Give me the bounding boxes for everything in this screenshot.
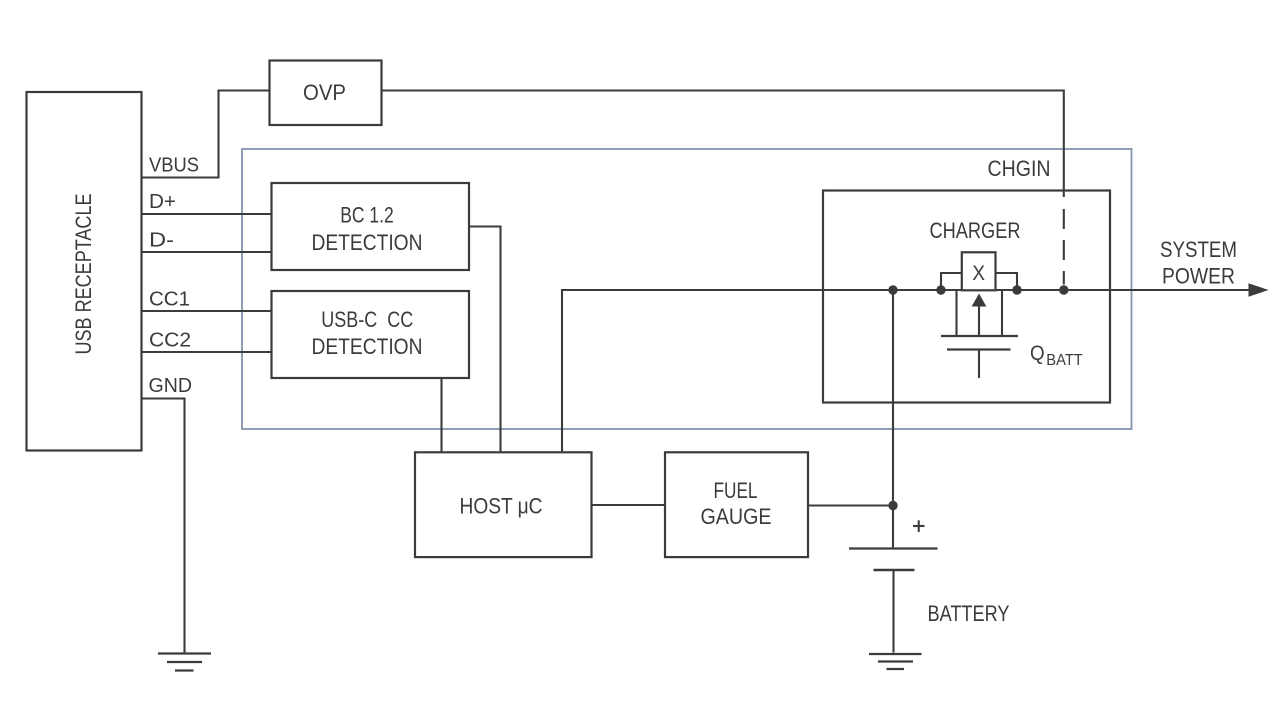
wire CC-detection to host <box>440 378 442 452</box>
block HOST microcontroller <box>415 452 592 557</box>
svg-text:USB-C CC: USB-C CC <box>321 307 413 332</box>
block USB receptacle J1 <box>27 92 142 451</box>
wire battery to ground <box>892 570 894 653</box>
wire charger to battery <box>892 290 894 548</box>
svg-text:HOST μC: HOST μC <box>460 494 543 519</box>
ground symbol (battery) <box>869 654 922 669</box>
svg-text:DETECTION: DETECTION <box>312 230 423 255</box>
block OVP <box>270 61 382 126</box>
svg-text:GND: GND <box>149 375 193 397</box>
node dot CHGIN <box>1059 285 1068 294</box>
node dot transistor right <box>1012 285 1021 294</box>
wire fuel gauge to battery node <box>808 504 893 506</box>
svg-text:OVP: OVP <box>303 80 346 105</box>
svg-text:BATTERY: BATTERY <box>928 601 1010 626</box>
svg-text:CHARGER: CHARGER <box>930 218 1021 243</box>
transistor Q1 drain lead <box>1001 291 1003 335</box>
dashed-boundary IC block (blue) <box>242 149 1132 429</box>
svg-text:VBUS: VBUS <box>149 155 199 177</box>
wire system power rail <box>562 290 1251 452</box>
transistor QBATT right jog <box>996 273 1018 290</box>
node dot transistor left <box>936 285 945 294</box>
svg-text:CC2: CC2 <box>149 330 191 352</box>
arrowhead system power <box>1249 283 1269 297</box>
wire CHGIN dashed segment <box>1063 209 1065 285</box>
transistor Q1 source lead <box>955 291 957 335</box>
transistor Q1 gate lead <box>978 350 980 378</box>
wire D+ <box>142 213 272 215</box>
transistor Q1 gate plate <box>947 348 1011 350</box>
svg-text:D+: D+ <box>149 191 176 213</box>
block BC 1.2 detection <box>272 183 470 270</box>
node dot battery rail <box>888 285 897 294</box>
block FUEL GAUGE <box>665 452 808 557</box>
svg-text:FUEL: FUEL <box>714 478 758 503</box>
wire CC1 <box>142 310 272 312</box>
svg-text:Q: Q <box>1030 342 1045 365</box>
wire BC1.2 to host <box>469 227 501 453</box>
svg-text:SYSTEM: SYSTEM <box>1160 237 1237 262</box>
svg-text:USB RECEPTACLE: USB RECEPTACLE <box>71 194 96 355</box>
battery plus sign <box>913 520 925 532</box>
wire GND to ground <box>142 399 185 653</box>
svg-text:GAUGE: GAUGE <box>701 504 772 529</box>
svg-text:X: X <box>972 262 985 285</box>
label QBATT <box>1030 342 1083 369</box>
wire host to fuel gauge <box>592 504 666 506</box>
transistor QBATT left jog <box>941 273 963 290</box>
svg-text:CC1: CC1 <box>149 289 190 311</box>
battery BT1 positive plate <box>849 547 938 549</box>
svg-text:CHGIN: CHGIN <box>988 156 1051 181</box>
block USB-C CC detection <box>272 291 470 378</box>
net label SYSTEM POWER <box>1160 237 1237 288</box>
wire CC2 <box>142 351 272 353</box>
battery BT1 negative plate <box>874 569 915 571</box>
svg-text:BATT: BATT <box>1046 352 1083 369</box>
svg-text:POWER: POWER <box>1162 263 1235 288</box>
node dot fuel gauge junction <box>888 501 897 510</box>
wire D- <box>142 251 272 253</box>
svg-text:BC 1.2: BC 1.2 <box>340 202 394 227</box>
wire OVP output to CHGIN <box>382 91 1064 198</box>
wire VBUS to OVP <box>142 91 270 178</box>
svg-text:DETECTION: DETECTION <box>312 334 423 359</box>
transistor Q1 channel plate <box>941 335 1018 337</box>
gate drive arrow <box>972 294 987 337</box>
svg-text:D-: D- <box>149 230 174 252</box>
current sense element X <box>962 252 996 290</box>
block CHARGER <box>823 191 1110 403</box>
ground symbol (USB) <box>158 654 211 671</box>
